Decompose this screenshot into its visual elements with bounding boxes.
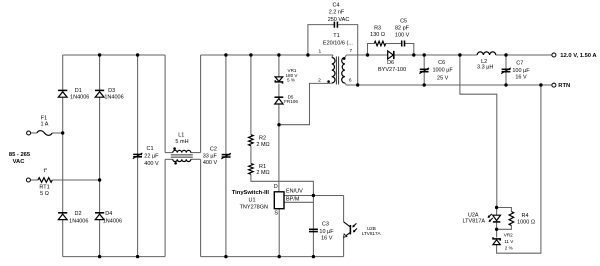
svg-text:82 pF: 82 pF [395,26,410,32]
svg-text:D1: D1 [75,88,82,94]
svg-text:1N4006: 1N4006 [103,218,122,224]
svg-text:85 - 265: 85 - 265 [9,152,31,158]
svg-text:1N4006: 1N4006 [104,95,123,101]
svg-text:TNY278GN: TNY278GN [240,204,268,210]
svg-text:1000 Ω: 1000 Ω [517,219,535,225]
svg-text:L1: L1 [178,132,184,138]
svg-text:25 V: 25 V [437,76,449,82]
svg-text:10 µF: 10 µF [319,229,334,235]
svg-text:1 A: 1 A [41,122,49,128]
svg-text:C6: C6 [438,60,445,66]
svg-text:D6: D6 [387,60,394,66]
svg-text:VR2: VR2 [504,233,513,238]
svg-text:R3: R3 [374,26,381,32]
svg-text:16 V: 16 V [321,236,333,242]
svg-text:C2: C2 [210,147,217,153]
svg-text:BP/M: BP/M [286,197,300,203]
svg-text:1N4006: 1N4006 [69,218,88,224]
svg-text:5 mH: 5 mH [175,139,188,145]
svg-text:3.3 µH: 3.3 µH [477,65,493,71]
svg-text:2 MΩ: 2 MΩ [256,142,269,148]
svg-text:RT1: RT1 [39,185,49,191]
svg-text:T1: T1 [333,33,339,39]
svg-text:2 MΩ: 2 MΩ [256,170,269,176]
svg-text:2.2 nF: 2.2 nF [329,9,345,15]
svg-text:1000 µF: 1000 µF [432,67,453,73]
svg-text:5 %: 5 % [287,78,295,83]
svg-text:7: 7 [349,48,352,54]
svg-text:EN/UV: EN/UV [286,189,303,195]
svg-text:C4: C4 [332,3,339,9]
svg-text:BYV27-100: BYV27-100 [378,67,406,73]
svg-text:R2: R2 [259,136,266,142]
svg-text:VAC: VAC [13,159,26,165]
svg-text:TinySwitch-III: TinySwitch-III [232,190,270,196]
svg-text:400 V: 400 V [144,161,159,167]
svg-text:16 V: 16 V [515,75,527,81]
svg-text:R4: R4 [521,213,528,219]
svg-text:E20/10/6 (...: E20/10/6 (... [323,41,353,47]
svg-text:2 %: 2 % [505,245,513,250]
svg-text:S: S [274,211,278,217]
svg-text:100 V: 100 V [395,33,410,39]
svg-text:400 V: 400 V [203,160,218,166]
svg-text:33 µF: 33 µF [203,153,218,159]
svg-text:D: D [274,184,278,190]
svg-text:1N4006: 1N4006 [70,95,89,101]
svg-text:D3: D3 [108,88,115,94]
svg-text:F1: F1 [41,115,47,121]
svg-text:2: 2 [318,78,321,84]
svg-text:5 Ω: 5 Ω [40,191,49,197]
svg-text:C3: C3 [322,221,329,227]
svg-text:U2A: U2A [468,213,479,219]
svg-text:C5: C5 [400,19,407,25]
svg-text:12.0 V, 1.50 A: 12.0 V, 1.50 A [560,53,597,59]
svg-text:LTV817A: LTV817A [463,219,486,225]
svg-text:22 µF: 22 µF [144,154,159,160]
svg-text:D4: D4 [105,211,112,217]
svg-text:D2: D2 [74,211,81,217]
svg-text:C1: C1 [147,146,154,152]
svg-text:100 µF: 100 µF [512,68,530,74]
svg-text:LTV817A: LTV817A [362,231,382,236]
svg-text:11 V: 11 V [504,239,514,244]
svg-text:FR106: FR106 [284,99,298,104]
svg-text:t°: t° [44,168,48,174]
svg-text:6: 6 [349,77,352,83]
svg-text:RTN: RTN [558,83,570,89]
svg-text:C7: C7 [516,61,523,67]
svg-text:1: 1 [318,49,321,55]
svg-text:250 VAC: 250 VAC [328,17,350,23]
svg-text:U1: U1 [248,198,255,204]
svg-text:130 Ω: 130 Ω [370,32,385,38]
